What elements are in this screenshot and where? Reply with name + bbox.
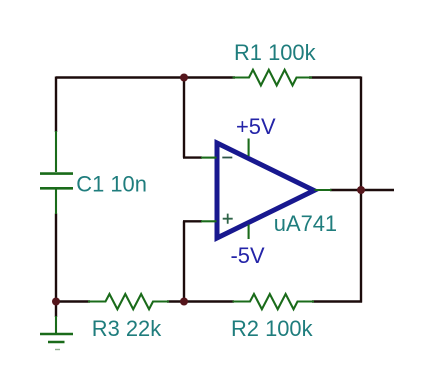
wire bottom middle xyxy=(167,300,234,302)
svg-text:R1 100k: R1 100k xyxy=(234,40,316,65)
op-amp inverting input stub xyxy=(201,157,217,159)
wire output stub xyxy=(330,189,394,191)
svg-text:R3 22k: R3 22k xyxy=(92,316,161,341)
junction node output xyxy=(357,186,365,194)
wire inverting input vertical xyxy=(183,78,185,158)
op-amp U1 triangle xyxy=(217,143,314,238)
resistor R2 xyxy=(233,294,315,309)
ground xyxy=(40,316,73,350)
wire right vertical xyxy=(360,77,362,303)
op-amp output stub xyxy=(315,189,332,191)
wire bottom right xyxy=(312,300,362,302)
svg-text:R2 100k: R2 100k xyxy=(231,316,313,341)
svg-text:C1 10n: C1 10n xyxy=(76,172,147,197)
wire ground stem xyxy=(55,302,57,318)
op-amp negative supply stub xyxy=(248,225,250,240)
wire inverting input horizontal xyxy=(183,156,202,158)
capacitor C1 top lead xyxy=(55,131,57,172)
capacitor C1 bottom lead xyxy=(55,190,57,215)
op-amp plus sign xyxy=(223,214,233,224)
wire left vertical lower xyxy=(55,214,57,303)
wire top right segment xyxy=(309,76,361,78)
junction node bottom left (ground / C1 / R3) xyxy=(52,298,60,306)
svg-text:-5V: -5V xyxy=(231,243,265,268)
capacitor C1 bottom plate xyxy=(40,187,73,190)
resistor R1 xyxy=(233,70,313,86)
op-amp noninverting input stub xyxy=(201,220,217,222)
wire bottom left xyxy=(55,300,90,302)
svg-text:+5V: +5V xyxy=(236,114,276,139)
wire noninverting input horizontal xyxy=(183,220,202,222)
wire top horizontal xyxy=(56,76,235,78)
op-amp minus sign xyxy=(222,157,232,159)
capacitor C1 top plate xyxy=(40,172,73,175)
op-amp positive supply stub xyxy=(248,139,250,157)
resistor R3 xyxy=(88,294,169,309)
junction node bottom middle (R3 / R2 / noninverting) xyxy=(180,298,188,306)
wire noninverting input vertical xyxy=(183,221,185,301)
svg-text:uA741: uA741 xyxy=(274,211,337,236)
wire left vertical upper xyxy=(55,77,57,133)
junction node top (R1 / inverting feedback) xyxy=(180,74,188,82)
